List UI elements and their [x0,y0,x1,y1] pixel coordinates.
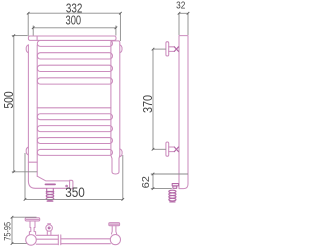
heater housing slot dash [46,183,56,185]
dimension texts [1,0,186,240]
bottom elbow outer [28,181,69,188]
dimension lines [12,13,188,243]
side lower bracket plate [166,142,169,156]
detail valve knob [46,225,53,232]
dim 32 left extension [178,13,180,35]
bottom-left wall bracket bump [26,147,28,155]
dim 75-95 top extension [12,216,37,218]
side elbow fitting [172,184,178,189]
dim 75-95 bottom extension [12,243,27,245]
svg-text:75-95: 75-95 [2,222,12,241]
front cable gland cylinder [46,189,54,192]
dim 32 line [179,12,188,14]
dim 300 left extension [32,26,34,36]
side lower bracket arm [169,147,175,152]
svg-text:370: 370 [140,95,155,113]
left tube joint line [28,161,37,163]
detail left T-bracket cap [25,218,40,221]
dim 332 line [28,12,120,14]
header bar left seam [36,36,38,40]
dim 500 bottom extension [12,171,37,173]
top header bar tube [28,36,116,40]
dim 300 right extension [115,26,117,36]
dim 75-95 line [11,217,13,243]
top-right wall bracket bump [120,45,122,53]
rung 4 [37,78,112,84]
rung 2 [37,53,112,59]
dim 370 line [152,49,154,149]
dim 62 bottom extension [151,188,172,190]
detail valve nub [48,223,51,225]
detail coupling [58,235,61,245]
detail right T-bracket stem [111,226,116,234]
detail wide pipe section [36,235,58,244]
dim 62 line [152,174,154,189]
right tube top cap [111,41,120,44]
dim 350 line [25,198,123,200]
detail valve stem [47,231,51,235]
right collector tube [110,44,112,155]
bottom elbow inner chamfer [37,176,69,181]
detail left T-bracket stem [29,221,35,234]
dim 370 top extension [153,48,166,50]
dim 300 line [33,27,116,29]
side view tube [179,36,188,189]
heater housing end cap [70,180,73,189]
detail right T-bracket inner cap line [110,223,119,225]
svg-text:32: 32 [176,1,186,12]
front cable spiral [46,192,54,201]
svg-text:500: 500 [1,91,16,108]
dim 500 line [13,36,15,172]
left collector tube [27,45,29,181]
lower rung 4 [37,149,112,155]
dim 332 left extension [27,13,29,36]
top-left wall bracket bump [26,45,28,53]
detail tube [61,239,111,244]
detail right circle [110,235,120,245]
detail left end circle [26,235,37,246]
side cable spiral [169,190,176,202]
svg-text:62: 62 [140,176,152,189]
rung 1 [37,41,112,47]
dim 32 right extension [187,13,189,35]
right tube bottom plug [111,155,120,174]
lower rung 1 [37,114,112,120]
detail right T-bracket cap [109,223,120,226]
dim 370 bottom extension [153,148,166,150]
side upper bracket screw cross [174,47,178,52]
lower rung 3 [37,138,112,144]
lower rung 2 [37,126,112,132]
dim 350 left extension [24,153,26,199]
lower section top line [37,107,111,109]
side upper bracket arm [169,47,175,52]
dim 332 right extension [119,13,121,41]
side upper bracket plate [166,42,169,56]
dim 500 top extension [12,35,28,37]
dim 62 top extension [151,173,188,175]
side lower bracket screw cross [174,147,178,152]
rung 3 [37,65,112,71]
heater housing screw dot [66,185,68,187]
svg-text:300: 300 [66,13,82,28]
dim 350 right extension [122,155,124,199]
bottom-right wall bracket bump [120,149,122,157]
dimension end slashes [11,12,190,245]
svg-text:350: 350 [65,184,85,200]
